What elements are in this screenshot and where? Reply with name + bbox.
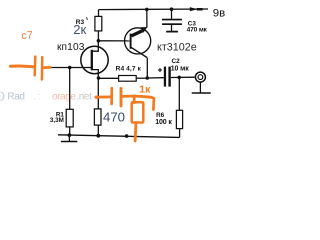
wire C2 right to jack <box>171 76 195 78</box>
annotation hook stroke <box>137 96 154 109</box>
node gate/R1 <box>68 66 72 70</box>
svg-text:c7: c7 <box>21 29 33 42</box>
svg-text:2к: 2к <box>73 22 86 37</box>
svg-text:. :: . : <box>33 91 40 102</box>
wire R4 right <box>136 77 147 79</box>
svg-text:1к: 1к <box>139 85 151 96</box>
ground symbol jack <box>192 82 211 93</box>
ground symbol left <box>61 135 77 141</box>
svg-text:100 к: 100 к <box>155 119 172 126</box>
wire R1 top <box>69 68 71 110</box>
node R1/ground rail <box>68 133 72 137</box>
svg-text:кп103: кп103 <box>57 42 85 53</box>
capacitor C2 <box>158 67 171 87</box>
label 2к <box>73 22 86 37</box>
transistor VT1 кп103 (JFET) <box>81 41 108 78</box>
node A: R3/base/drain junction <box>97 39 101 43</box>
wire collector VT2 <box>146 9 148 27</box>
annotation label c7 <box>21 29 33 42</box>
svg-text:10 мк: 10 мк <box>171 65 190 72</box>
capacitor C3 <box>162 9 182 31</box>
svg-text:3,3M: 3,3M <box>50 117 64 124</box>
svg-text:кт3102е: кт3102е <box>157 42 197 54</box>
svg-text:Rad: Rad <box>7 91 24 102</box>
transistor VT2 кт3102е (BJT) <box>125 27 151 57</box>
node collector/top rail <box>145 8 149 12</box>
top rail wire <box>99 8 209 11</box>
resistor R1 <box>66 109 73 127</box>
ground rail wire <box>58 135 180 138</box>
node annotation/ground rail <box>125 134 129 138</box>
node R2/ground rail <box>96 134 100 138</box>
label 470 <box>103 109 125 124</box>
wire R4 left <box>99 77 119 79</box>
label C3 470 мк <box>187 20 208 33</box>
watermark <box>1 91 93 102</box>
supply arrow <box>190 7 203 11</box>
wire gate <box>50 67 91 69</box>
connector XS1 output jack <box>195 72 205 82</box>
label R1 3,3M <box>50 112 64 125</box>
node emitter/C2 <box>146 76 150 80</box>
wire base VT2 <box>98 40 129 42</box>
wire C2 left <box>147 77 164 79</box>
label C2 10 мк <box>171 58 190 72</box>
resistor R4 <box>119 76 137 82</box>
label 9в <box>213 8 225 20</box>
svg-text:.net: .net <box>76 91 92 102</box>
label R6 100 к <box>155 112 172 126</box>
svg-text:C2: C2 <box>172 58 181 65</box>
wire R6 top <box>178 77 180 110</box>
resistor R6 <box>176 110 182 128</box>
label кп103 <box>57 42 85 53</box>
label R4 4,7 к <box>116 66 142 73</box>
label R3' <box>76 17 88 26</box>
annotation capacitor series (source RC) <box>95 88 135 106</box>
resistor R3' <box>95 10 102 41</box>
node C3/top rail <box>170 7 174 11</box>
wire emitter VT2 <box>146 58 148 78</box>
wire R6 bottom <box>179 129 181 138</box>
node output C2/R6 <box>177 76 181 80</box>
wire JFET source / R2 top <box>97 78 99 109</box>
svg-text:9в: 9в <box>213 8 225 20</box>
annotation resistor 1к <box>132 96 144 141</box>
svg-text:R4 4,7 к: R4 4,7 к <box>116 66 142 73</box>
svg-text:470 мк: 470 мк <box>187 26 208 33</box>
svg-text:470: 470 <box>103 109 125 124</box>
annotation label 1к <box>139 85 151 96</box>
svg-text:orage: orage <box>52 91 76 102</box>
resistor R2 470 <box>94 109 101 136</box>
label кт3102е <box>157 42 197 54</box>
wire R1 bottom <box>69 127 71 135</box>
node source/R4 <box>97 76 101 80</box>
annotation capacitor c7 <box>11 57 51 80</box>
